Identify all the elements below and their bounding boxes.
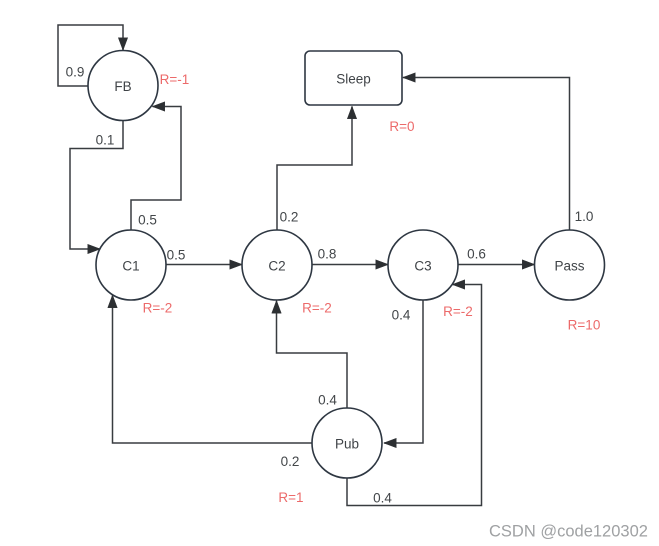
svg-text:Pass: Pass bbox=[554, 259, 584, 274]
svg-text:0.4: 0.4 bbox=[318, 393, 337, 408]
state C2 bbox=[242, 230, 312, 300]
wire C3->Pass 0.6 bbox=[458, 264, 535, 266]
svg-text:R=0: R=0 bbox=[389, 119, 414, 134]
svg-text:R=10: R=10 bbox=[568, 318, 601, 333]
svg-text:Pub: Pub bbox=[335, 437, 359, 452]
svg-text:R=-1: R=-1 bbox=[160, 72, 190, 87]
svg-text:0.8: 0.8 bbox=[318, 247, 337, 262]
svg-text:FB: FB bbox=[114, 79, 131, 94]
wire FB->C1 0.1 bbox=[70, 121, 123, 249]
svg-text:C3: C3 bbox=[414, 259, 431, 274]
wire Pass->Sleep 1.0 bbox=[403, 78, 570, 231]
svg-text:0.4: 0.4 bbox=[392, 308, 411, 323]
wire Pub->C1 0.2 bbox=[113, 295, 312, 443]
state Pub bbox=[312, 408, 382, 478]
svg-text:R=1: R=1 bbox=[278, 490, 303, 505]
state FB bbox=[88, 51, 158, 121]
svg-text:R=-2: R=-2 bbox=[302, 301, 332, 316]
svg-text:0.4: 0.4 bbox=[373, 491, 392, 506]
svg-text:C2: C2 bbox=[268, 259, 285, 274]
wire Pub->C2 0.4 bbox=[277, 301, 348, 408]
svg-text:1.0: 1.0 bbox=[575, 209, 594, 224]
wire C2->C3 0.8 bbox=[312, 264, 388, 266]
svg-text:C1: C1 bbox=[122, 259, 139, 274]
wire C1->C2 0.5 bbox=[166, 264, 242, 266]
svg-text:Sleep: Sleep bbox=[336, 72, 371, 87]
wire FB self-loop 0.9 bbox=[58, 25, 123, 86]
state Sleep (rect) bbox=[305, 51, 402, 105]
wire C2->Sleep 0.2 bbox=[277, 107, 352, 231]
state C1 bbox=[96, 230, 166, 300]
state C3 bbox=[388, 230, 458, 300]
svg-text:0.2: 0.2 bbox=[281, 454, 300, 469]
svg-text:0.5: 0.5 bbox=[167, 248, 186, 263]
svg-text:0.6: 0.6 bbox=[467, 247, 486, 262]
svg-text:0.2: 0.2 bbox=[280, 210, 299, 225]
wire Pub->C3 0.4 bbox=[347, 285, 482, 506]
svg-text:R=-2: R=-2 bbox=[143, 301, 173, 316]
svg-text:0.5: 0.5 bbox=[138, 213, 157, 228]
state Pass bbox=[535, 230, 605, 300]
svg-text:CSDN @code120302: CSDN @code120302 bbox=[489, 523, 648, 541]
wire C3->Pub 0.4 bbox=[384, 300, 423, 443]
svg-text:0.9: 0.9 bbox=[66, 65, 85, 80]
svg-text:R=-2: R=-2 bbox=[443, 304, 473, 319]
svg-text:0.1: 0.1 bbox=[96, 133, 115, 148]
wire C1->FB 0.5 bbox=[131, 107, 181, 231]
